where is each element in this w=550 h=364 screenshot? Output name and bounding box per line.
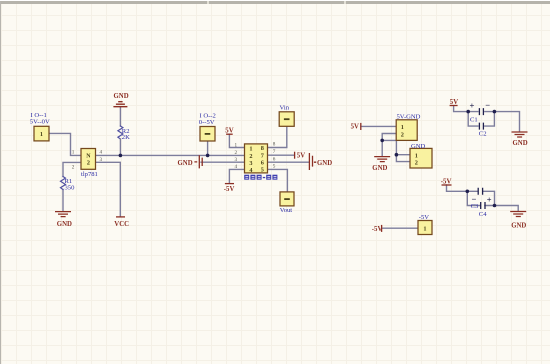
svg-text:GND: GND [411, 143, 426, 150]
ground symbol at C4 [510, 212, 526, 217]
svg-text:Vin: Vin [280, 105, 290, 112]
svg-text:-5V: -5V [441, 179, 452, 186]
junction C1 right [493, 110, 497, 114]
junction C1 left [466, 110, 470, 114]
wire U2 pin4 to -5V port [229, 169, 244, 183]
svg-text:C3: C3 [471, 203, 479, 210]
svg-text:5V: 5V [351, 124, 359, 131]
wire -5V port to J3 [382, 227, 418, 229]
wire C4 right to ground [485, 206, 518, 212]
svg-text:−: − [485, 100, 490, 110]
-5V port bar bottom [381, 225, 383, 232]
wire C2 right branch [485, 112, 495, 127]
svg-text:1: 1 [423, 225, 426, 232]
svg-text:3: 3 [235, 157, 238, 163]
svg-text:2: 2 [72, 164, 75, 170]
wire IO1 to U1 pin1 [49, 133, 82, 155]
svg-text:N: N [86, 153, 91, 159]
IC U2 body [245, 144, 268, 173]
5V bar above U2 pin1 [226, 133, 233, 135]
capacitor C4 plates [481, 202, 485, 209]
svg-text:GND: GND [511, 223, 526, 230]
wire C3 right drop [484, 191, 495, 205]
svg-text:-5V: -5V [372, 226, 383, 233]
ground symbol above R2 (pointing up) [113, 102, 127, 107]
svg-text:8: 8 [261, 145, 264, 152]
wire U2 pin8 to Vin [268, 126, 287, 147]
svg-text:2: 2 [415, 160, 418, 167]
wire -5V to C3 left [447, 185, 478, 191]
wire U2 pin7 to 5V port [268, 154, 295, 156]
optocoupler U1 tlp781 [81, 149, 96, 170]
connector J3 body [418, 221, 432, 235]
svg-text:VCC: VCC [114, 221, 129, 228]
wire 5V port to U2 pin1 [229, 134, 244, 147]
wire C2 left branch [468, 112, 478, 127]
junction C4 right [493, 204, 497, 208]
svg-text:GND: GND [372, 165, 387, 172]
capacitor C1 plates [479, 108, 483, 115]
svg-text:5V-GND: 5V-GND [397, 114, 421, 121]
svg-text:3: 3 [100, 157, 103, 163]
svg-text:7: 7 [273, 149, 276, 155]
svg-text:+: + [470, 101, 475, 111]
wire J1 pin2 to ground [382, 134, 396, 157]
port box Vout [280, 192, 294, 206]
svg-text:GND: GND [513, 140, 528, 147]
connector J2 body [410, 148, 432, 168]
svg-text:5V: 5V [297, 153, 305, 160]
chinese annotation under U2 [244, 175, 277, 180]
svg-text:1: 1 [401, 124, 404, 131]
port box Vin [279, 112, 294, 127]
svg-text:−: − [472, 194, 477, 204]
wire U2 pin6 to GND port [268, 161, 309, 163]
wire 5V to C1 left [454, 106, 478, 112]
svg-text:2: 2 [401, 131, 404, 138]
svg-text:-5V: -5V [419, 214, 429, 221]
-5V bar at C3 [442, 184, 452, 186]
resistor R1 [61, 177, 66, 190]
wire U2 pin5 to Vout [268, 169, 288, 192]
svg-text:7: 7 [261, 152, 264, 159]
dash inside IO2 [205, 133, 211, 135]
ground symbol at J1 [374, 157, 390, 162]
svg-text:2K: 2K [122, 134, 130, 141]
ground symbol at C2 [512, 132, 528, 137]
svg-text:C2: C2 [479, 131, 487, 138]
port box IO1 [34, 126, 49, 141]
svg-text:5V: 5V [450, 99, 458, 106]
svg-text:tlp781: tlp781 [81, 171, 98, 178]
svg-text:1: 1 [40, 131, 43, 138]
svg-text:5: 5 [261, 167, 264, 174]
svg-text:2: 2 [249, 153, 252, 160]
wire U1 pin2 to R1 top [63, 162, 81, 176]
capacitor C3 plates [478, 188, 482, 195]
wire C1 right to ground [485, 112, 520, 132]
svg-text:C1: C1 [470, 117, 478, 124]
junction main/IO2 [206, 154, 210, 158]
svg-text:GND: GND [178, 160, 193, 167]
capacitor C2 plates [479, 123, 483, 130]
port box IO2 [200, 127, 215, 142]
svg-text:350: 350 [65, 185, 76, 192]
5V port bar at U2 pin7 [294, 152, 296, 159]
svg-text:2: 2 [87, 160, 90, 167]
junction C3 left [466, 190, 470, 194]
wire main net U1 pin4 to U2 pin2 [96, 154, 245, 156]
wire 5V port to J1 pin1 [361, 125, 396, 127]
svg-text:8: 8 [273, 141, 276, 147]
VCC bar [116, 216, 125, 218]
svg-text:1: 1 [235, 142, 238, 148]
svg-text:4: 4 [100, 150, 103, 156]
svg-text:5V--0V: 5V--0V [30, 119, 50, 126]
connector J1 body [396, 120, 417, 141]
junction J2 pins branch [395, 153, 399, 157]
5V bar top right [450, 105, 458, 107]
svg-text:5V: 5V [225, 128, 233, 135]
GND port bars at U2 pin3 [194, 155, 202, 168]
svg-text:6: 6 [261, 160, 264, 167]
wire U1 pin3 to VCC [96, 162, 121, 216]
svg-text:6: 6 [273, 157, 276, 163]
svg-text:2: 2 [235, 150, 238, 156]
-5V bar below U2 pin4 [225, 183, 234, 185]
ground symbol below R1 [55, 212, 71, 217]
svg-text:1: 1 [72, 150, 75, 156]
wire R2 top to GND port [119, 107, 121, 126]
svg-text:GND: GND [114, 93, 129, 100]
svg-text:GND: GND [317, 160, 332, 167]
svg-text:5: 5 [273, 164, 276, 170]
junction main/R2 [119, 154, 123, 158]
wire branch to J2 pin2 [396, 155, 410, 162]
svg-text:C4: C4 [479, 211, 487, 218]
dash inside Vout [284, 198, 290, 200]
svg-text:1: 1 [249, 146, 252, 153]
svg-text:Vout: Vout [280, 207, 293, 214]
svg-text:GND: GND [57, 221, 72, 228]
svg-text:1: 1 [415, 153, 418, 160]
wire C4 left branch [467, 191, 480, 205]
junction J1 pin2 branch [380, 139, 384, 143]
wire branch to J2 pin1 [382, 140, 410, 154]
resistor R2 [118, 126, 123, 139]
wire GND port to U2 pin3 [201, 161, 245, 163]
dash inside Vin [284, 118, 290, 120]
GND port bars at U2 pin6 [309, 153, 316, 170]
svg-text:4: 4 [235, 164, 238, 170]
5V port bar left of J1 [360, 123, 362, 130]
wire R2 bottom to main net [119, 139, 121, 155]
wire R1 bottom to ground [62, 190, 64, 212]
wire IO2 drop to main net [207, 141, 209, 155]
svg-text:0--5V: 0--5V [199, 119, 215, 126]
svg-text:3: 3 [249, 160, 252, 167]
svg-text:+: + [487, 195, 492, 205]
svg-text:-5V: -5V [224, 186, 235, 193]
